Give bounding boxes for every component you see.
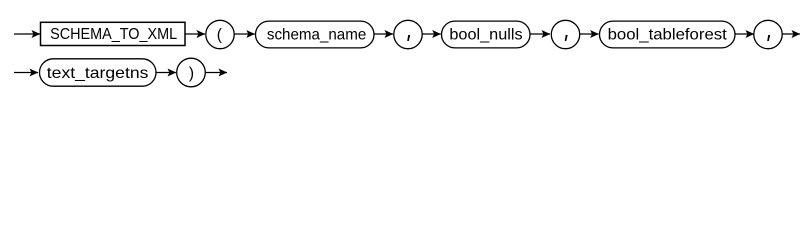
node , (comma terminal 3) — [754, 20, 782, 48]
svg-text:): ) — [189, 65, 194, 82]
wire: line2 exit arrow — [205, 72, 227, 74]
node , (comma terminal 2) — [551, 20, 579, 48]
wire — [580, 33, 599, 35]
wire: line1 exit arrow — [782, 33, 800, 35]
wire: line1 entry arrow — [14, 33, 40, 35]
svg-text:bool_tableforest: bool_tableforest — [608, 26, 728, 43]
wire — [735, 33, 754, 35]
wire — [530, 33, 550, 35]
wire — [156, 72, 176, 74]
node bool_tableforest (parameter) — [600, 21, 736, 48]
wire — [374, 33, 393, 35]
wire — [185, 33, 205, 35]
node , (comma terminal 1) — [394, 20, 422, 48]
node SCHEMA_TO_XML (keyword box) — [41, 22, 186, 45]
svg-text:(: ( — [217, 27, 223, 44]
svg-text:schema_name: schema_name — [267, 26, 366, 43]
node ( (open paren terminal) — [206, 20, 234, 48]
node text_targetns (parameter) — [40, 59, 157, 86]
wire — [422, 33, 441, 35]
wire — [234, 33, 255, 35]
node schema_name (parameter) — [256, 21, 375, 48]
svg-text:text_targetns: text_targetns — [47, 65, 149, 82]
node ) (close paren terminal) — [177, 58, 206, 87]
wire: line2 entry arrow — [14, 72, 38, 74]
node bool_nulls (parameter) — [442, 21, 531, 48]
svg-text:SCHEMA_TO_XML: SCHEMA_TO_XML — [50, 26, 177, 43]
svg-text:bool_nulls: bool_nulls — [449, 26, 522, 43]
